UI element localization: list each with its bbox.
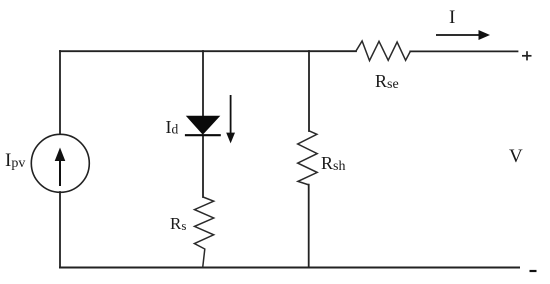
diode D1 (185, 116, 221, 136)
svg-text:Rse: Rse (375, 71, 399, 92)
wire bottom horizontal (60, 267, 519, 269)
svg-text:V: V (509, 146, 523, 167)
resistor Rs (194, 197, 213, 268)
resistor Rse (356, 41, 411, 61)
svg-text:I: I (449, 7, 455, 28)
svg-text:Id: Id (166, 117, 179, 137)
svg-text:Ipv: Ipv (5, 150, 25, 171)
terminal minus (530, 270, 537, 272)
svg-text:Rsh: Rsh (321, 153, 345, 174)
current source arrow (55, 148, 66, 187)
diode current arrow (226, 95, 235, 143)
resistor Rsh (298, 131, 318, 185)
wire diode branch upper (202, 51, 204, 116)
terminal plus (522, 51, 532, 60)
wire left vertical upper (59, 51, 61, 134)
current arrow I (436, 30, 490, 40)
wire diode to Rs (202, 136, 204, 197)
wire left vertical lower (59, 192, 61, 268)
wire top-left horizontal (60, 50, 356, 52)
wire top-right horizontal (410, 50, 517, 52)
wire Rsh branch upper (308, 51, 310, 131)
current source Ipv (31, 134, 89, 192)
svg-text:Rs: Rs (170, 214, 186, 233)
wire Rsh to bottom (308, 185, 310, 268)
